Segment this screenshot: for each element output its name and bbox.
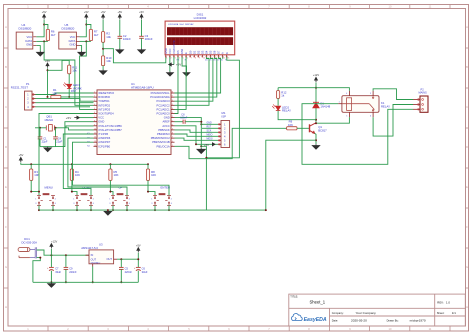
svg-text:MAINS: MAINS xyxy=(419,91,427,95)
svg-text:1: 1 xyxy=(151,198,152,200)
wire supply bottom rail xyxy=(33,281,138,283)
junction xyxy=(120,281,122,283)
resistor R5 10K xyxy=(109,169,112,180)
svg-text:E: E xyxy=(466,185,468,189)
svg-text:8: 8 xyxy=(195,57,196,59)
wire DC1 to +12V rail xyxy=(37,250,89,255)
svg-text:G: G xyxy=(466,265,468,269)
wire U4 DATA to MCU INT0 xyxy=(44,41,93,105)
junction xyxy=(65,281,67,283)
svg-text:+12V: +12V xyxy=(313,73,319,77)
svg-text:2: 2 xyxy=(129,198,130,200)
svg-text:BC817: BC817 xyxy=(318,128,327,132)
svg-text:MENU: MENU xyxy=(45,186,53,190)
svg-text:9: 9 xyxy=(199,57,200,59)
resistor R2 10k xyxy=(102,32,105,43)
resistor R9 10K xyxy=(287,127,297,130)
svg-text:UP: UP xyxy=(119,186,123,190)
svg-text:4: 4 xyxy=(346,93,347,95)
svg-text:ATMEGA8-16PU: ATMEGA8-16PU xyxy=(131,86,154,90)
svg-text:100nF: 100nF xyxy=(180,116,188,119)
svg-text:GND: GND xyxy=(69,43,75,47)
svg-text:H: H xyxy=(466,305,468,309)
svg-text:C6: C6 xyxy=(142,266,146,270)
svg-text:7: 7 xyxy=(191,57,192,59)
wire XTAL2 to MCU xyxy=(66,128,94,130)
junction xyxy=(30,163,32,165)
wire +5V to MCU VCC xyxy=(79,117,93,119)
junction xyxy=(147,163,149,165)
svg-text:5: 5 xyxy=(94,108,95,110)
svg-text:4: 4 xyxy=(171,203,172,205)
svg-text:+5V: +5V xyxy=(139,10,144,14)
svg-text:PC1/ADC1: PC1/ADC1 xyxy=(157,107,171,111)
junction xyxy=(38,209,40,211)
junction xyxy=(315,119,317,121)
wire P1 pin3 xyxy=(36,102,94,104)
ground (ISP/MCU) xyxy=(197,148,205,154)
ground (crystal) xyxy=(44,147,51,152)
svg-text:DATA: DATA xyxy=(25,39,32,43)
wire +5V down to R1 xyxy=(47,68,49,97)
ground (Q1) xyxy=(313,144,320,149)
junction xyxy=(92,281,94,283)
wire crystal gnd rail xyxy=(40,146,56,148)
resistor R10 10k xyxy=(102,56,105,66)
wire R10 to ground xyxy=(102,66,104,70)
wire emitter node to keys ground rail xyxy=(266,140,316,210)
svg-text:RELAY: RELAY xyxy=(282,109,291,113)
title block frame xyxy=(289,294,466,326)
wire R1 to MCU RXD xyxy=(61,96,94,98)
wire ISP GND xyxy=(201,123,218,125)
svg-text:3: 3 xyxy=(94,100,95,102)
svg-text:4: 4 xyxy=(93,203,94,205)
key switch UP xyxy=(111,194,129,206)
svg-text:1: 1 xyxy=(73,198,74,200)
svg-text:AREF: AREF xyxy=(163,120,171,124)
wire divider node xyxy=(102,42,104,56)
wire to C4 xyxy=(55,128,57,137)
svg-text:10K: 10K xyxy=(114,173,119,177)
svg-text:ICP1/PB0: ICP1/PB0 xyxy=(98,144,110,148)
resistor R8 10K xyxy=(146,169,149,180)
svg-text:+5V: +5V xyxy=(176,63,181,67)
wire U5 GND xyxy=(80,46,82,51)
svg-text:DS18B20: DS18B20 xyxy=(19,27,32,31)
svg-text:D4: D4 xyxy=(205,50,209,54)
svg-text:19: 19 xyxy=(171,129,173,131)
svg-text:Sheet:: Sheet: xyxy=(437,311,445,315)
svg-text:D6: D6 xyxy=(213,50,217,54)
capacitor C2 100nF xyxy=(118,35,123,37)
svg-text:1N4148: 1N4148 xyxy=(320,105,330,109)
led LED2 RELAY xyxy=(277,98,279,105)
junction xyxy=(47,96,49,98)
svg-text:RXD/PD0: RXD/PD0 xyxy=(98,95,110,99)
wire AREF to cap xyxy=(175,121,184,123)
svg-text:C: C xyxy=(5,105,7,109)
mcu pin numbers xyxy=(94,92,173,147)
junction xyxy=(195,143,197,145)
key switch MENU xyxy=(37,194,55,206)
svg-text:4: 4 xyxy=(55,203,56,205)
svg-text:12: 12 xyxy=(94,137,96,139)
svg-text:22pF: 22pF xyxy=(42,140,48,144)
svg-text:+5V: +5V xyxy=(101,10,106,14)
svg-text:27: 27 xyxy=(171,96,173,98)
svg-text:D7: D7 xyxy=(217,50,221,54)
svg-text:+5V: +5V xyxy=(45,59,50,63)
svg-text:TXD/PD1: TXD/PD1 xyxy=(98,99,110,103)
svg-text:10k: 10k xyxy=(72,69,77,73)
svg-text:B: B xyxy=(466,65,468,69)
svg-text:A: A xyxy=(466,25,468,29)
svg-text:RS: RS xyxy=(176,50,180,54)
svg-text:VCC: VCC xyxy=(27,35,33,39)
LCD pin numbers xyxy=(166,57,229,59)
junction xyxy=(315,87,317,89)
wire relay contact bottom to P2 pin2 xyxy=(373,105,413,137)
svg-text:PB1/OC1A: PB1/OC1A xyxy=(157,144,170,148)
svg-text:1: 1 xyxy=(339,101,340,103)
svg-text:DATA: DATA xyxy=(69,39,76,43)
resistor R6 4k7 xyxy=(46,29,49,40)
svg-text:/RESET/PC6: /RESET/PC6 xyxy=(98,91,114,95)
wire keys rail to ground net vertical xyxy=(201,146,206,210)
junction xyxy=(71,191,73,193)
wire relay NO contact to P2 pin1 xyxy=(373,89,413,100)
wire +5V to C3 xyxy=(141,20,143,37)
relay K1 xyxy=(342,96,379,113)
wire rail to R5 xyxy=(109,164,111,169)
wire LED2 to Q1 collector node xyxy=(278,111,316,120)
svg-text:4: 4 xyxy=(94,104,95,106)
svg-text:D3: D3 xyxy=(200,50,204,54)
wire U4 DATA xyxy=(36,40,48,42)
svg-text:IN: IN xyxy=(91,253,94,257)
resistor R1 10K xyxy=(51,95,61,98)
svg-text:22: 22 xyxy=(171,116,173,118)
svg-text:K: K xyxy=(225,52,229,54)
svg-text:10K: 10K xyxy=(75,173,80,177)
wire R9 to Q1 base xyxy=(297,127,310,129)
wire key UP to MCU AIN0 xyxy=(68,138,127,195)
svg-text:23: 23 xyxy=(171,112,173,114)
svg-text:1: 1 xyxy=(109,198,110,200)
svg-text:220nF: 220nF xyxy=(69,270,77,274)
junction xyxy=(137,258,139,260)
capacitor C1 22pF xyxy=(38,136,43,138)
svg-text:Drawn By:: Drawn By: xyxy=(387,318,399,322)
svg-text:VCC: VCC xyxy=(98,116,104,120)
wire LCD RW pin5 to ground xyxy=(182,57,186,72)
key switch ENTER xyxy=(153,194,171,206)
wire R5 to key xyxy=(110,180,113,195)
junction xyxy=(50,254,52,256)
svg-text:+5V: +5V xyxy=(19,153,24,157)
svg-text:9: 9 xyxy=(94,124,95,126)
svg-text:17: 17 xyxy=(171,137,173,139)
capacitor C8 100nF (AREF) xyxy=(183,120,185,124)
wire DOWN to gnd rail xyxy=(76,205,78,210)
wire C2 to ground xyxy=(119,38,121,48)
capacitor C7 33uF xyxy=(50,255,52,267)
wire UP to gnd rail xyxy=(112,205,114,210)
svg-text:DS18B20: DS18B20 xyxy=(62,27,75,31)
svg-text:2020-05-20: 2020-05-20 xyxy=(351,319,367,323)
svg-text:A: A xyxy=(221,52,225,54)
svg-text:1: 1 xyxy=(166,57,167,59)
ground (keys) xyxy=(104,210,111,215)
wire relay common to P2 pin3 xyxy=(302,104,413,165)
led LED1 WORK xyxy=(63,83,71,89)
diode D1 1N4148 xyxy=(313,102,319,108)
wire ENTER to gnd rail xyxy=(154,205,156,210)
svg-text:1: 1 xyxy=(94,92,95,94)
svg-text:10k: 10k xyxy=(106,59,111,63)
wire P1 pin4 xyxy=(36,106,91,108)
junction xyxy=(39,127,41,129)
svg-text:ISP: ISP xyxy=(222,114,227,118)
junction xyxy=(85,40,87,42)
svg-text:6: 6 xyxy=(370,116,371,118)
wire MCU AVCC to +5V xyxy=(175,126,219,145)
svg-text:XTAL1/TOSC1/PB6: XTAL1/TOSC1/PB6 xyxy=(98,124,122,128)
junction xyxy=(315,139,317,141)
svg-text:GND: GND xyxy=(26,43,32,47)
junction xyxy=(154,209,156,211)
wire MCU GND pin to gnd vertical xyxy=(175,118,202,147)
svg-text:11: 11 xyxy=(94,133,96,135)
ground (supply) xyxy=(48,282,55,287)
svg-text:26: 26 xyxy=(171,100,173,102)
ground (U5) xyxy=(78,51,85,56)
capacitor C9 220nF xyxy=(65,255,67,267)
svg-text:10K: 10K xyxy=(288,123,293,127)
resistor R4 10K xyxy=(70,169,73,180)
LCD pin end circles xyxy=(165,56,227,57)
svg-text:D: D xyxy=(466,145,468,149)
svg-text:3: 3 xyxy=(35,203,36,205)
svg-text:2: 2 xyxy=(171,198,172,200)
wire R12 top to +12V node xyxy=(278,87,316,89)
svg-text:PC3/ADC3: PC3/ADC3 xyxy=(157,99,171,103)
svg-text:G: G xyxy=(5,265,7,269)
wire +5V to R2 xyxy=(102,20,104,32)
svg-text:DC-005-20A: DC-005-20A xyxy=(22,240,38,244)
junction xyxy=(147,191,149,193)
wire P1 pin1 to MCU RESET xyxy=(36,93,94,95)
junction xyxy=(109,191,111,193)
svg-text:OUT: OUT xyxy=(107,257,113,261)
wire rail to R4 xyxy=(71,164,73,169)
svg-text:100nF: 100nF xyxy=(123,37,131,41)
ground (divider) xyxy=(100,70,107,75)
svg-text:TITLE:: TITLE: xyxy=(290,295,298,299)
wire MENU to gnd rail xyxy=(38,205,40,210)
junction xyxy=(76,209,78,211)
svg-text:24: 24 xyxy=(171,108,173,110)
svg-text:16: 16 xyxy=(227,57,229,59)
ground (C2) xyxy=(116,49,123,54)
svg-text:E: E xyxy=(184,52,188,54)
svg-text:4k7: 4k7 xyxy=(94,33,99,37)
svg-text:5: 5 xyxy=(346,116,347,118)
svg-text:mickpr1970: mickpr1970 xyxy=(410,319,426,323)
svg-text:R/W: R/W xyxy=(180,48,184,54)
svg-text:D7: D7 xyxy=(217,60,219,62)
svg-text:PC4/ADC4/SDA: PC4/ADC4/SDA xyxy=(150,95,170,99)
wire P1 pin2 to MCU TXD xyxy=(36,99,94,102)
wire U3 out rail xyxy=(117,258,138,260)
svg-text:6: 6 xyxy=(94,112,95,114)
key switch DOWN xyxy=(75,194,93,206)
svg-text:LCD1602A 16x2 DISPLAY: LCD1602A 16x2 DISPLAY xyxy=(168,23,194,26)
wire Q1 emitter to ground xyxy=(315,133,316,144)
svg-text:10K: 10K xyxy=(151,173,156,177)
svg-text:AVCC: AVCC xyxy=(162,124,169,128)
svg-text:RELAY: RELAY xyxy=(381,105,390,109)
resistor R12 1k xyxy=(277,88,279,91)
wire R11 to LED1 xyxy=(68,74,70,84)
svg-text:18: 18 xyxy=(171,133,173,135)
junction xyxy=(200,145,202,147)
wire ISP MISO to MCU PB4 xyxy=(175,134,219,136)
svg-text:D: D xyxy=(5,145,7,149)
svg-text:13: 13 xyxy=(94,141,96,143)
svg-text:Sheet_1: Sheet_1 xyxy=(310,299,326,304)
capacitor C6 33uF xyxy=(137,259,139,267)
mcu pin stubs and names xyxy=(94,93,175,146)
wire crystal net xyxy=(35,127,46,129)
svg-text:3: 3 xyxy=(109,203,110,205)
svg-text:/T1/PD5: /T1/PD5 xyxy=(98,132,108,136)
svg-text:H: H xyxy=(5,305,7,309)
wire +5V to U4 VCC xyxy=(36,20,44,37)
wire R8 to key xyxy=(148,180,155,195)
wire LED1 to node xyxy=(68,89,70,97)
svg-text:+5V: +5V xyxy=(117,10,122,14)
svg-text:15: 15 xyxy=(171,145,173,147)
wire key DOWN to MCU T1/PD5 xyxy=(63,134,93,195)
wire +5V key rail xyxy=(21,163,148,165)
svg-text:A: A xyxy=(5,25,7,29)
svg-text:PB2/SS/OC1B: PB2/SS/OC1B xyxy=(152,140,170,144)
svg-text:14: 14 xyxy=(94,145,96,147)
svg-text:AIN1/PD7: AIN1/PD7 xyxy=(98,140,110,144)
wire R3 to key xyxy=(31,180,39,195)
capacitor C3 100nF xyxy=(139,35,144,37)
junction xyxy=(47,69,49,71)
svg-text:+12V: +12V xyxy=(51,239,57,243)
wire key MENU to MCU PD4 xyxy=(39,114,94,192)
LCD pin stubs xyxy=(166,55,227,57)
svg-text:5: 5 xyxy=(183,57,184,59)
svg-text:2: 2 xyxy=(55,198,56,200)
junction xyxy=(120,258,122,260)
svg-text:D6: D6 xyxy=(213,60,215,62)
title block text xyxy=(290,295,456,323)
wire LCD D5 to MCU PC3 xyxy=(175,57,213,101)
svg-text:D5: D5 xyxy=(209,50,213,54)
svg-text:1: 1 xyxy=(35,198,36,200)
junction xyxy=(43,40,45,42)
wire +12V stem xyxy=(50,249,52,255)
svg-text:10k: 10k xyxy=(106,35,111,39)
svg-text:3: 3 xyxy=(175,57,176,59)
junction xyxy=(109,163,111,165)
wire to C1 xyxy=(39,128,41,137)
svg-text:3: 3 xyxy=(73,203,74,205)
junction xyxy=(65,254,67,256)
svg-text:2: 2 xyxy=(94,96,95,98)
svg-text:OUT: OUT xyxy=(91,258,97,262)
wire rail to R8 xyxy=(147,164,149,169)
wire C4 to gnd rail xyxy=(55,139,57,147)
resistor R11 10k xyxy=(68,65,71,74)
wire ISP RST xyxy=(202,127,218,129)
ground (C3) xyxy=(138,49,145,54)
junction xyxy=(68,96,70,98)
transistor Q1 BC817 xyxy=(310,123,317,134)
svg-text:2: 2 xyxy=(170,57,171,59)
svg-text:C9: C9 xyxy=(69,266,73,270)
svg-text:GND/ADJ: GND/ADJ xyxy=(91,261,101,264)
junction xyxy=(55,127,57,129)
svg-text:PC0/ADC0: PC0/ADC0 xyxy=(157,112,171,116)
junction xyxy=(85,24,87,26)
ground (U4) xyxy=(37,51,44,56)
svg-text:+5V: +5V xyxy=(42,10,47,14)
wire U4 GND xyxy=(36,46,40,51)
svg-text:GND: GND xyxy=(98,120,104,124)
svg-text:C: C xyxy=(466,105,468,109)
svg-text:PC5/ADC5/SCL: PC5/ADC5/SCL xyxy=(151,91,171,95)
capacitor C4 22pF xyxy=(53,136,58,138)
junction xyxy=(102,48,104,50)
junction xyxy=(38,191,40,193)
svg-text:D1: D1 xyxy=(192,50,196,54)
svg-text:+5V: +5V xyxy=(84,10,89,14)
relay pin stubs xyxy=(338,91,373,117)
wire R4 to key xyxy=(72,180,77,195)
junction xyxy=(265,209,267,211)
svg-text:B: B xyxy=(5,65,7,69)
svg-text:25: 25 xyxy=(171,104,173,106)
svg-text:+5V: +5V xyxy=(66,116,71,120)
resistor R7 4k7 xyxy=(89,29,92,40)
svg-text:C7: C7 xyxy=(55,266,59,270)
junction xyxy=(43,24,45,26)
wire +5V branch to R11 xyxy=(48,60,70,70)
wire LCD K to ground net xyxy=(206,57,239,158)
svg-text:VCC: VCC xyxy=(70,35,76,39)
wire branch to R6 xyxy=(44,25,48,30)
wire U5 DATA to MCU INT1 xyxy=(80,41,94,109)
svg-text:LCD1602: LCD1602 xyxy=(194,16,207,20)
svg-text:Company:: Company: xyxy=(332,311,344,315)
svg-text:EasyEDA: EasyEDA xyxy=(304,317,327,323)
svg-text:RS232_TEST: RS232_TEST xyxy=(11,85,29,89)
svg-text:100nF: 100nF xyxy=(145,37,153,41)
wire U5 DATA xyxy=(80,40,91,42)
wire MCU PB1 to R9 xyxy=(175,128,287,158)
svg-text:E: E xyxy=(5,185,7,189)
ground (LCD pin5) xyxy=(183,72,189,76)
svg-text:D0: D0 xyxy=(188,50,192,54)
svg-text:D2: D2 xyxy=(196,50,200,54)
